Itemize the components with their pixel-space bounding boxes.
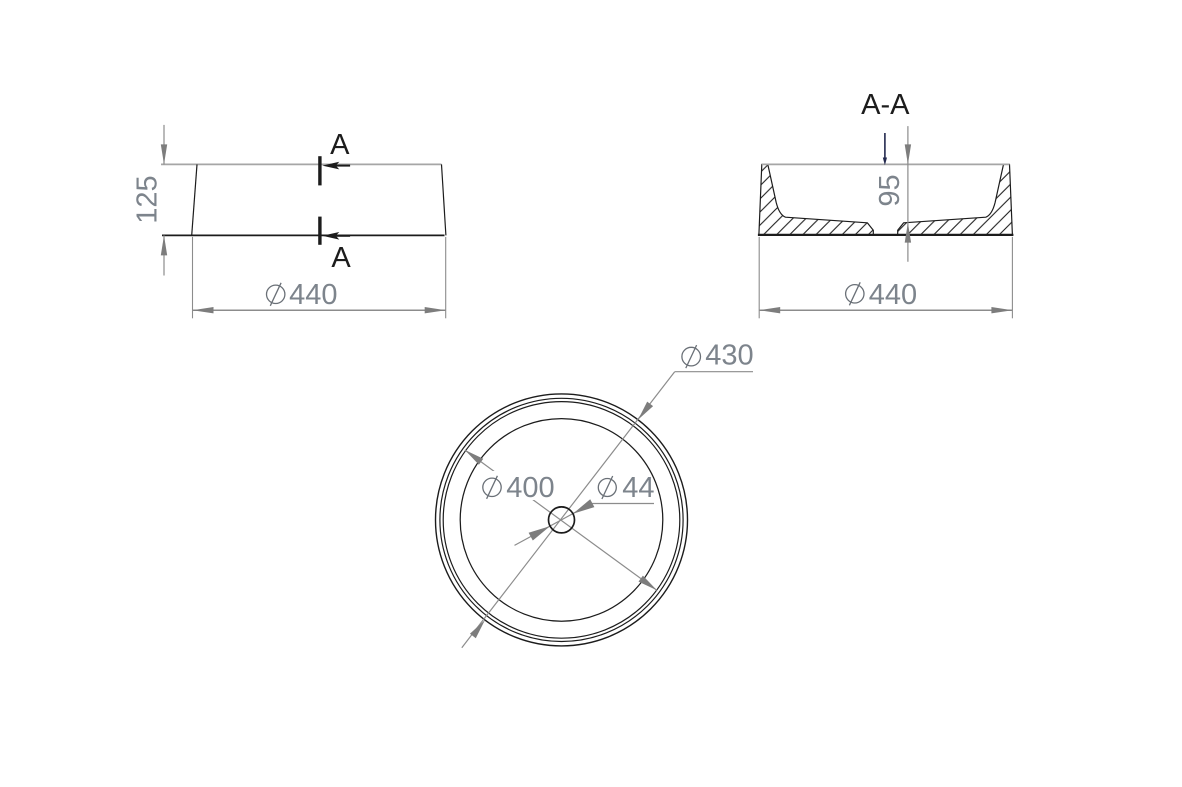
svg-text:A-A: A-A [861,89,910,121]
svg-text:A: A [331,242,351,274]
svg-text:A: A [330,129,350,161]
svg-text:400: 400 [506,472,554,504]
svg-text:125: 125 [132,175,164,223]
svg-text:95: 95 [874,174,906,206]
svg-text:430: 430 [705,339,753,371]
svg-text:440: 440 [869,279,917,311]
svg-text:44: 44 [622,472,654,504]
svg-text:440: 440 [289,279,337,311]
